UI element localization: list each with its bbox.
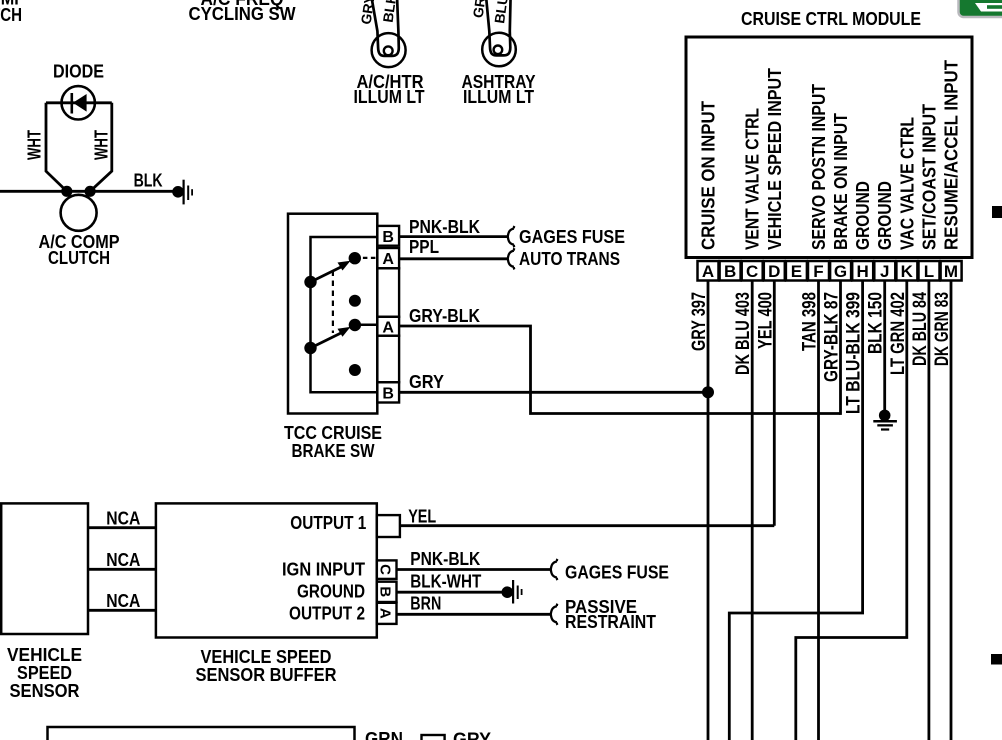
buffer terminal A box [377,603,397,624]
svg-text:OUTPUT 1: OUTPUT 1 [290,513,366,533]
svg-text:CLUTCH: CLUTCH [48,248,110,268]
wire L DK BLU 84 vertical [928,281,931,740]
buffer terminal C box [377,560,397,579]
svg-text:WHT: WHT [92,130,112,160]
wire K LT GRN 402 vertical + jog left [796,281,907,740]
svg-text:CLUTCH: CLUTCH [0,5,22,25]
svg-text:RESTRAINT: RESTRAINT [565,612,656,632]
svg-text:B: B [382,385,394,402]
lamp A/C/HTR ILLUM LT [372,33,406,67]
switch internal wire loop [311,237,378,392]
svg-text:WHT: WHT [25,130,45,160]
svg-text:VEHICLE SPEED INPUT: VEHICLE SPEED INPUT [765,68,785,250]
page marker right 1 [992,206,1002,218]
ground splice symbol S1 [172,180,193,205]
wire C DK BLU 403 vertical [751,281,754,740]
bottom component box [48,727,355,740]
label VEHICLE SPEED SENSOR BUFFER [196,647,337,685]
wire J BLK 150 vertical to ground [883,281,886,414]
wire G GRY-BLK vertical [839,281,842,415]
switch contact dots [349,252,361,264]
buffer output1 terminal box [377,515,400,537]
svg-text:CRUISE ON INPUT: CRUISE ON INPUT [699,101,719,250]
logo green [959,0,1002,17]
svg-text:GRY-BLK: GRY-BLK [409,306,480,326]
wire WHT right loop [90,103,112,192]
wire NCA 2 [88,568,156,571]
wire BLK horizontal [0,190,177,193]
wire YEL output1 to module D [400,524,774,527]
svg-text:DIODE: DIODE [53,61,104,81]
switch pivot dots [304,276,316,288]
wire NCA 1 [88,526,156,529]
junction node right [85,186,96,197]
wire M DK GRN 83 vertical [950,281,953,740]
vehicle speed sensor buffer box [156,503,377,637]
svg-text:B: B [382,229,394,246]
label A/C COMP CLUTCH [39,232,120,268]
lamp ashtray illum: wires [486,0,511,55]
svg-text:C: C [377,564,394,575]
label VEHICLE SPEED SENSOR [7,645,82,701]
inline connector box [422,735,445,740]
svg-text:CRUISE CTRL MODULE: CRUISE CTRL MODULE [741,9,921,29]
svg-text:OUTPUT 2: OUTPUT 2 [289,604,365,624]
wire PNK-BLK from B [399,235,508,238]
dashed contact line to A [355,257,377,259]
svg-text:BLK: BLK [134,171,163,191]
svg-text:F: F [813,262,823,281]
brace gages fuse [508,226,515,247]
ground G101 [873,410,897,431]
wire F TAN 398 vertical [817,281,820,740]
vehicle speed sensor box [1,503,88,634]
svg-text:D: D [768,262,780,281]
diode D1 [46,86,112,119]
svg-text:E: E [791,262,802,281]
brace auto trans [508,248,515,269]
svg-text:C: C [746,262,758,281]
svg-text:BRN: BRN [410,594,441,614]
svg-text:IGN INPUT: IGN INPUT [282,560,365,580]
brace gages fuse 2 [551,559,558,580]
svg-text:M: M [944,262,958,281]
wire A GRY 397 vertical [707,281,710,740]
svg-text:A: A [382,319,394,336]
svg-text:PNK-BLK: PNK-BLK [410,549,480,569]
svg-text:SENSOR: SENSOR [10,681,80,701]
label TCC CRUISE BRAKE SW [284,423,382,461]
svg-text:CYCLING SW: CYCLING SW [189,4,296,24]
svg-text:PPL: PPL [409,237,439,257]
lamp A/C/HTR illum: wires [371,0,399,56]
svg-text:SERVO POSTN INPUT: SERVO POSTN INPUT [809,84,829,250]
switch terminal strip [377,226,399,403]
svg-text:A: A [382,251,394,268]
wire PPL from A [399,257,508,260]
partial label A/C FREQ CYCLING SW [189,0,296,24]
svg-text:NCA: NCA [106,591,140,611]
svg-text:G: G [834,262,847,281]
svg-text:BRAKE ON INPUT: BRAKE ON INPUT [831,113,851,250]
A/C comp clutch coil [61,195,97,231]
wire H LT BLU-BLK 399 vertical + jog left [729,281,862,740]
terminal letters [382,229,394,403]
svg-text:A: A [377,608,394,619]
svg-text:H: H [856,262,868,281]
dashed link line [332,271,334,334]
svg-text:B: B [724,262,736,281]
brace passive restraint [551,604,558,625]
connector pin boxes A-M [698,261,962,281]
svg-text:AUTO TRANS: AUTO TRANS [519,249,620,269]
label PASSIVE RESTRAINT [565,597,656,632]
svg-text:B: B [377,586,394,597]
svg-text:VAC VALVE CTRL: VAC VALVE CTRL [897,117,917,250]
partial label top-left (A/C COMP CLUTCH cut off) [0,0,25,25]
junction node left [61,186,72,197]
pin letters A-M [702,262,958,281]
svg-text:VEHICLE SPEED: VEHICLE SPEED [201,647,332,667]
svg-text:NCA: NCA [106,509,140,529]
wire GRY-BLK from A2 to module G [399,326,840,414]
switch arm 2 [311,327,351,348]
svg-text:L: L [924,262,934,281]
svg-text:GRN: GRN [365,729,403,740]
svg-text:GRY: GRY [453,730,491,740]
cruise ctrl module U1 box [686,37,972,258]
svg-text:SENSOR BUFFER: SENSOR BUFFER [196,665,337,685]
svg-text:A: A [702,262,714,281]
wire BLK-WHT ground [397,591,507,594]
svg-text:NCA: NCA [106,550,140,570]
svg-text:GAGES FUSE: GAGES FUSE [565,562,669,582]
contact line to A2 [355,323,377,326]
svg-text:VEHICLE: VEHICLE [7,645,82,665]
wire BRN output2 [397,613,551,616]
svg-text:GROUND: GROUND [297,582,365,602]
svg-text:SPEED: SPEED [17,663,72,683]
svg-text:ILLUM LT: ILLUM LT [463,87,534,107]
wire PNK-BLK ign input [397,568,551,571]
svg-text:VENT VALVE CTRL: VENT VALVE CTRL [743,108,763,250]
label ASHTRAY ILLUM LT [462,72,536,107]
svg-text:GAGES FUSE: GAGES FUSE [519,227,625,247]
junction node on A wire [702,386,714,398]
svg-text:ILLUM LT: ILLUM LT [354,87,425,107]
svg-text:GRY: GRY [409,372,444,392]
svg-text:GROUND: GROUND [853,181,873,250]
wire WHT left loop [46,103,67,192]
svg-text:SET/COAST INPUT: SET/COAST INPUT [919,104,939,250]
page marker right 2 [991,654,1002,665]
wire NCA 3 [88,609,156,612]
svg-text:PNK-BLK: PNK-BLK [409,217,480,237]
wire D YEL 400 vertical [773,281,776,526]
label A/C/HTR ILLUM LT [354,72,425,107]
svg-text:J: J [880,262,889,281]
svg-text:BRAKE SW: BRAKE SW [292,441,375,461]
svg-text:BLK-WHT: BLK-WHT [410,572,481,592]
svg-text:GROUND: GROUND [875,181,895,250]
lamp ASHTRAY ILLUM LT [482,33,516,67]
svg-text:RESUME/ACCEL INPUT: RESUME/ACCEL INPUT [942,60,962,250]
switch arm 1 [311,261,351,282]
svg-text:YEL: YEL [408,507,436,527]
buffer terminal B box [377,582,397,602]
ground splice symbol S2 [502,580,523,604]
svg-text:K: K [901,262,914,281]
svg-text:TCC CRUISE: TCC CRUISE [284,423,382,443]
wire GRY from B2 to module A [399,391,708,394]
TCC cruise brake switch SW1 outer box [288,214,377,414]
